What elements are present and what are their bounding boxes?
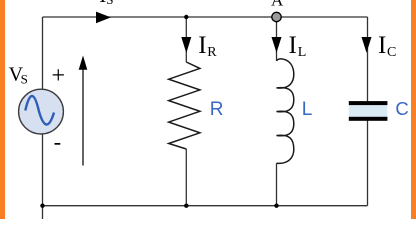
svg-text:+: + <box>52 63 66 89</box>
junction dot bottom R branch <box>184 204 188 208</box>
svg-text:L: L <box>302 99 313 120</box>
resistor R zigzag <box>169 62 200 149</box>
wire capacitor branch lower <box>367 121 369 206</box>
source Vs <box>19 89 64 134</box>
left orange border <box>0 0 5 219</box>
wire capacitor branch upper <box>367 17 369 102</box>
arrow Vs direction (upward) <box>82 66 84 166</box>
svg-text:R: R <box>207 45 217 60</box>
arrow Is on top wire <box>96 12 111 24</box>
svg-text:I: I <box>198 32 206 59</box>
node A <box>272 12 281 21</box>
minus sign <box>55 143 61 145</box>
svg-text:L: L <box>298 45 307 60</box>
svg-text:C: C <box>395 98 408 119</box>
junction dot bottom L branch <box>274 204 278 208</box>
wire top: node Vs corner to capacitor corner <box>43 16 368 18</box>
capacitor C dielectric <box>349 105 388 117</box>
wire resistor branch lower <box>185 149 187 206</box>
svg-text:I: I <box>289 32 297 59</box>
wire resistor branch upper <box>185 17 187 62</box>
svg-text:A: A <box>271 0 284 10</box>
svg-text:S: S <box>21 71 28 86</box>
wire inductor branch lower <box>276 163 278 205</box>
arrow IL <box>272 37 282 53</box>
arrow IR <box>181 37 191 53</box>
junction dot bottom left <box>40 204 44 208</box>
sine wave inside source <box>25 96 54 125</box>
arrow IC <box>362 37 372 53</box>
capacitor C top plate <box>349 101 388 105</box>
junction dot top (R branch) <box>184 15 188 19</box>
svg-text:C: C <box>387 45 396 60</box>
svg-text:R: R <box>210 99 224 120</box>
inductor L coil <box>277 59 294 164</box>
svg-text:S: S <box>106 0 113 7</box>
svg-text:I: I <box>99 0 106 7</box>
svg-text:I: I <box>378 32 386 59</box>
wire inductor branch upper <box>276 17 278 61</box>
wire bottom <box>43 205 368 207</box>
wire left upper (corner to source top) <box>42 17 44 90</box>
capacitor C bottom plate <box>349 117 388 121</box>
wire left lower (source bottom past bottom wire to edge) <box>42 134 44 219</box>
right orange border <box>411 0 416 219</box>
